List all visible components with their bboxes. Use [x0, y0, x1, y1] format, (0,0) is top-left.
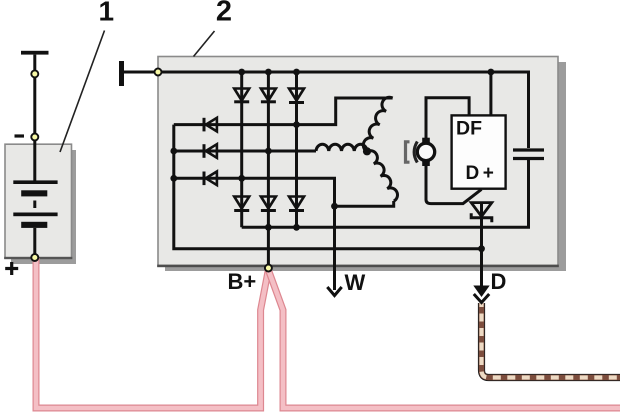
- alternator box shadow: [165, 62, 566, 271]
- stator coil middle: [316, 144, 367, 151]
- battery cell link dash: [33, 201, 36, 209]
- node battery top: [31, 70, 38, 77]
- svg-text:D: D: [491, 269, 507, 294]
- wire zener to D lead: [480, 203, 483, 288]
- label minus: [15, 134, 25, 137]
- diode D6 bottom: [289, 197, 304, 211]
- battery box bottom edge: [4, 257, 72, 259]
- battery bottom wire: [33, 228, 36, 258]
- junction node W tap: [331, 203, 338, 210]
- junction node rectifier out 3: [293, 224, 300, 231]
- node alternator input: [155, 69, 162, 76]
- diode D1 top: [234, 89, 249, 102]
- svg-text:D+: D+: [466, 163, 498, 184]
- battery cell 1 plate long: [13, 180, 57, 184]
- junction node row2 left rail: [170, 148, 177, 155]
- battery cell 2 plate short: [21, 222, 47, 228]
- svg-text:B+: B+: [228, 269, 257, 294]
- stator coil top: [363, 97, 392, 151]
- node battery plus: [31, 254, 38, 261]
- junction node top rail 3: [293, 69, 300, 76]
- battery top wire: [33, 55, 36, 181]
- zener diode: [471, 203, 492, 223]
- alternator box bottom edge: [157, 265, 559, 268]
- terminal bar alternator input: [119, 61, 124, 86]
- diode D5 bottom: [261, 197, 276, 211]
- wire capacitor bottom to rectifier: [242, 159, 529, 228]
- arrow W: [327, 287, 341, 296]
- wire phase row 3 and W lead: [174, 178, 335, 290]
- pink wire B+ to loads: [269, 271, 620, 409]
- battery box 1: [5, 144, 72, 258]
- rotor field winding: [417, 138, 434, 166]
- pointer line 1: [60, 31, 105, 153]
- diode D3 top: [289, 89, 304, 103]
- node B+: [265, 265, 272, 272]
- junction node row1 phase3: [293, 121, 300, 128]
- pink wire battery+ to B+: [36, 258, 268, 408]
- wire regulator supply: [489, 72, 492, 115]
- junction node rectifier out 2: [265, 224, 272, 231]
- battery cell 2 plate long: [13, 213, 57, 217]
- junction node top rail regulator: [488, 69, 495, 76]
- label plus: [5, 262, 18, 275]
- svg-text:2: 2: [216, 0, 232, 27]
- stator coil bottom: [367, 151, 397, 201]
- junction node top rail 1: [238, 69, 245, 76]
- arrow D chevron: [474, 294, 489, 303]
- dashed wire from D: [482, 303, 620, 378]
- junction node row3 left rail: [170, 175, 177, 182]
- wire phase row 1: [174, 98, 393, 125]
- junction node star point: [363, 147, 371, 155]
- wire left rail and bottom rail: [174, 125, 482, 249]
- diode D2 top: [261, 89, 276, 102]
- node battery minus: [31, 134, 38, 141]
- wire rotor brush bottom to D+: [426, 166, 482, 204]
- battery cell 1 plate short: [21, 190, 47, 196]
- capacitor C1: [513, 150, 544, 159]
- battery top terminal bar: [21, 51, 49, 55]
- regulator U1: [452, 115, 506, 188]
- pointer line 2: [194, 31, 215, 57]
- arrow D head: [473, 286, 489, 298]
- alternator box 2: [158, 57, 558, 267]
- wire top rail: [123, 72, 529, 148]
- wire rotor brush top to regulator: [426, 98, 469, 141]
- wire phase vertical V1: [240, 72, 243, 227]
- diode D8 excitation: [204, 144, 217, 158]
- slip ring bracket: [406, 142, 418, 163]
- junction node top rail 2: [265, 69, 272, 76]
- diode D9 excitation: [204, 172, 217, 186]
- svg-text:1: 1: [99, 0, 115, 27]
- svg-text:W: W: [345, 270, 366, 295]
- junction node D bottom rail: [478, 245, 485, 252]
- svg-text:DF: DF: [456, 118, 482, 140]
- diode D7 excitation: [204, 118, 217, 132]
- wire star to coil bottom: [335, 201, 394, 206]
- battery box shadow: [11, 150, 76, 264]
- wire phase vertical V3: [295, 72, 298, 227]
- wire phase row 2: [174, 150, 316, 153]
- junction node row2 phase2: [265, 148, 272, 155]
- diode D4 bottom: [234, 197, 249, 211]
- wire phase vertical V2 to B+: [267, 72, 270, 267]
- junction node row3 phase1: [238, 175, 245, 182]
